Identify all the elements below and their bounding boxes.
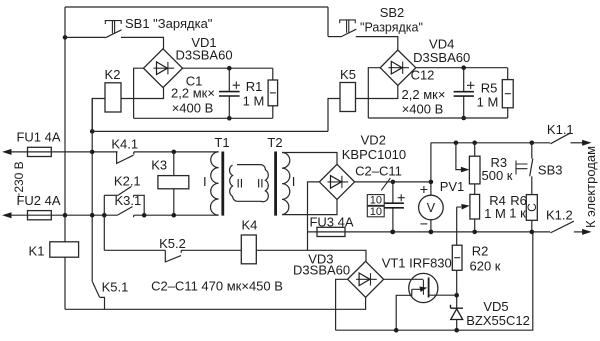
fuse FU3	[317, 227, 345, 236]
wire K2 left lead down to bus	[92, 99, 105, 132]
contact K2.1 tick and blade	[118, 186, 133, 197]
node C2-C11 top dot	[391, 180, 396, 185]
multiplier box 10 lower	[367, 206, 384, 217]
multiplier box 10 upper	[367, 195, 384, 206]
capacitor bank C2-C11 symbol	[392, 182, 394, 232]
diode symbol inside VD4	[388, 62, 409, 74]
pushbutton SB2 contact blade	[341, 29, 357, 37]
wire K4 right lead to VD3 top vertex	[256, 250, 366, 261]
svg-text:I: I	[203, 174, 207, 189]
wire K3 riser bottom	[173, 189, 175, 215]
transformer T1 primary winding	[211, 152, 219, 215]
node K3 top dot	[172, 150, 177, 155]
wire VD3 right vertex to VT1 gate	[384, 278, 424, 280]
contact K1.1 blade	[550, 133, 570, 144]
wire VD1 left vertex to left drop	[134, 68, 144, 118]
svg-text:K2.1: K2.1	[114, 174, 141, 189]
svg-text:K1.2: K1.2	[546, 208, 573, 223]
resistor R5	[507, 68, 509, 118]
bridge rectifier VD1 diamond	[144, 49, 183, 88]
contact K4.1 tick and blade	[117, 152, 134, 164]
wire SB2 right lead to VD4 top	[356, 37, 398, 50]
svg-text:FU2 4A: FU2 4A	[16, 193, 60, 208]
bridge rectifier VD3 diamond	[348, 261, 384, 297]
svg-text:KBPC1010: KBPC1010	[342, 147, 406, 162]
svg-text:1 М: 1 М	[477, 95, 499, 110]
wire K5.1 lower lead	[104, 297, 106, 309]
wire T2 primary bottom crossing to VD2 bottom vertex	[282, 200, 337, 215]
node C12 bottom dot	[461, 116, 466, 121]
svg-text:T1: T1	[214, 135, 229, 150]
svg-text:1 М: 1 М	[484, 206, 506, 221]
wire K2.1 branch right lead	[134, 195, 145, 215]
pushbutton SB3 upper lead	[531, 143, 533, 159]
svg-text:×400 В: ×400 В	[402, 102, 444, 117]
node K3 bottom dot	[172, 213, 177, 218]
contact K5.1 tick and blade	[92, 282, 105, 298]
contact K3.1 tick and blade	[118, 207, 134, 218]
node PV1 bottom dot	[429, 230, 434, 235]
wire relay bus K2-K5	[92, 130, 328, 132]
arrow to electrodes bottom	[582, 229, 591, 235]
wire VD3 left vertex drop to bottom rail	[336, 279, 348, 330]
node VD5 bottom dot	[454, 328, 459, 333]
wire bottom rail	[336, 232, 533, 330]
node relay bus left dot	[90, 129, 95, 134]
wire mains line 2 through FU2 to K3.1 break	[11, 214, 118, 216]
potentiometer R4	[470, 194, 480, 219]
wire SB1 right lead to VD1 top	[121, 37, 164, 48]
svg-text:V: V	[427, 201, 436, 215]
wire K5 left lead down to bus riser	[328, 99, 340, 132]
svg-text:K1: K1	[29, 244, 45, 259]
node K3.1 right dot	[142, 213, 147, 218]
label C2-C11 group tick	[381, 178, 390, 190]
wire K5.2 left lead	[104, 249, 165, 251]
svg-text:SB3: SB3	[538, 163, 563, 178]
wire K3 riser top	[173, 152, 175, 176]
plus mark of C12	[467, 82, 474, 89]
transistor VT1 gate and channel bars	[422, 280, 424, 295]
wire R4 wiper down to R2 crossing bus	[456, 207, 458, 245]
wire negative bus through FU3	[308, 231, 551, 233]
wire K2 right lead crossing to VD1 bottom vertex	[121, 88, 164, 99]
potentiometer R3	[474, 143, 476, 156]
svg-text:×400 В: ×400 В	[172, 101, 214, 116]
diode symbol inside VD2	[328, 176, 349, 188]
wire SB2 drop from top bus	[327, 7, 329, 37]
wire VT1 source to R2/VD5 node	[429, 294, 457, 296]
voltmeter PV1 circle	[419, 195, 444, 220]
wire mains line 1 through FU1	[11, 151, 118, 153]
wire VD2 left vertex drop	[308, 182, 320, 250]
wire left outer vertical (mains to K1)	[64, 7, 66, 242]
svg-text:D3SBA60: D3SBA60	[293, 263, 350, 278]
svg-text:SB2: SB2	[380, 5, 405, 20]
svg-text:VT1 IRF830: VT1 IRF830	[382, 256, 452, 271]
diode symbol inside VD1	[154, 62, 175, 74]
pushbutton SB2 actuator	[340, 20, 356, 33]
wire K1.2 output lead	[574, 231, 583, 233]
resistor R1	[272, 68, 274, 118]
pushbutton SB3 blade	[530, 159, 533, 177]
node SB1 tap junction dot	[63, 35, 68, 40]
arrow mains line 2	[2, 212, 11, 218]
wire K4.1 to T1 primary top	[134, 151, 219, 153]
plus mark of C1	[233, 82, 240, 89]
node K2.1 branch left dot	[102, 213, 107, 218]
svg-text:К электродам: К электродам	[583, 146, 598, 228]
node PV1 top dot	[429, 180, 434, 185]
R4 wiper arm with arrow	[457, 206, 462, 208]
svg-text:C2–C11: C2–C11	[355, 164, 402, 179]
plus mark of C2-C11	[398, 194, 405, 201]
svg-text:C12: C12	[411, 68, 435, 83]
wire T2 primary top to VD2 top vertex	[282, 153, 337, 165]
svg-text:K5.1: K5.1	[102, 280, 129, 295]
svg-text:10: 10	[370, 195, 382, 207]
svg-text:1 к: 1 к	[509, 206, 526, 221]
wire K2.1 branch left lead	[104, 194, 118, 196]
node VD5 top dot	[454, 293, 459, 298]
svg-text:D3SBA60: D3SBA60	[413, 50, 470, 65]
contact K1.2 blade	[550, 221, 574, 233]
transformer T2 core	[274, 152, 277, 216]
wire positive top bus	[431, 142, 550, 144]
node mains bus x92 dot	[90, 213, 95, 218]
node R4 bottom dot	[472, 230, 477, 235]
resistor R6	[526, 195, 537, 221]
pushbutton SB1 actuator	[105, 21, 121, 34]
minus mark of PV1	[420, 223, 427, 225]
wire VD4 left vertex to left drop	[368, 68, 380, 118]
wire C1/R1 bottom rail	[134, 117, 273, 119]
svg-text:T2: T2	[267, 135, 282, 150]
wire K2.1 branch left vertical	[103, 195, 105, 215]
svg-text:FU3 4A: FU3 4A	[309, 215, 353, 230]
wire top bus from left vertical to SB2 corner	[65, 6, 328, 8]
svg-text:FU1 4A: FU1 4A	[16, 130, 60, 145]
svg-text:R1: R1	[246, 79, 263, 94]
wire K1.1 output lead	[571, 142, 584, 144]
transistor VT1 circle	[409, 273, 438, 302]
svg-text:K1.1: K1.1	[547, 122, 574, 137]
node FU3 bus dot	[390, 230, 395, 235]
fuse FU1	[28, 147, 52, 156]
wire VT1 substrate to bottom rail	[396, 289, 412, 330]
wire PV1 riser and top bus start	[430, 143, 432, 232]
wire DC plus rail VD2 to PV1	[355, 181, 431, 183]
svg-text:10: 10	[370, 206, 382, 218]
wire C1/R1 top rail	[183, 67, 273, 69]
node R3 top dot	[472, 141, 477, 146]
capacitor C12 polarized	[463, 68, 465, 118]
svg-text:R2: R2	[472, 244, 489, 259]
bridge rectifier VD2 diamond	[319, 164, 354, 199]
svg-text:K2: K2	[105, 67, 121, 82]
capacitor C1 polarized	[228, 68, 230, 118]
svg-text:2,2 мк×: 2,2 мк×	[171, 86, 215, 101]
zener diode VD5	[456, 295, 458, 330]
svg-text:SB1 "Зарядка": SB1 "Зарядка"	[125, 16, 213, 31]
wire bus K3.1 to T1 primary bottom	[134, 214, 219, 216]
relay coil K3	[158, 176, 189, 189]
transformer T1 core	[221, 152, 224, 216]
node FU1 bus x92 dot	[90, 150, 95, 155]
wire SB2 left lead	[328, 36, 341, 38]
svg-text:K3: K3	[151, 158, 167, 173]
node R6 bottom dot	[530, 230, 535, 235]
svg-text:VD5: VD5	[483, 299, 508, 314]
svg-text:BZX55C12: BZX55C12	[466, 313, 530, 328]
svg-text:VD2: VD2	[361, 133, 386, 148]
wire K5.2 right lead to K4	[181, 249, 241, 251]
relay coil K1	[50, 242, 79, 257]
wire R3 to R4	[474, 184, 476, 195]
svg-text:II: II	[236, 177, 243, 191]
svg-text:I: I	[292, 174, 296, 189]
relay coil K5	[340, 83, 356, 112]
contact K5.2 tick and blade	[165, 250, 181, 262]
svg-text:K4.1: K4.1	[111, 136, 138, 151]
wire K5 right lead crossing to VD4 bottom vertex	[356, 86, 398, 99]
resistor R2	[452, 245, 462, 270]
diode symbol inside VD3	[356, 273, 377, 285]
wire K5.2 branch drop	[103, 215, 105, 250]
arrow to electrodes top	[582, 140, 591, 146]
node substrate rail dot	[394, 328, 399, 333]
wire lower return K1 to VD3 bottom	[65, 297, 366, 309]
svg-text:500 к: 500 к	[482, 168, 513, 183]
node VT1 drain bus dot	[429, 230, 434, 235]
svg-text:K5.2: K5.2	[159, 236, 186, 251]
arrow mains line 1	[2, 149, 11, 155]
transformer T2 primary winding	[282, 153, 290, 215]
wire SB1 left lead	[65, 36, 105, 38]
bridge rectifier VD4 diamond	[380, 50, 416, 86]
svg-text:C: C	[525, 203, 539, 212]
pushbutton SB1 contact blade	[105, 30, 121, 38]
node C1 top dot	[227, 66, 232, 71]
wire C12/R5 top rail	[416, 67, 508, 69]
node SB3 top dot	[530, 141, 535, 146]
secondary loop T1-II / T2-II windings	[230, 165, 269, 202]
relay coil K2	[105, 83, 121, 112]
svg-text:PV1: PV1	[440, 179, 465, 194]
node C12 top dot	[461, 65, 466, 70]
pushbutton SB3 lower lead	[531, 176, 533, 194]
svg-text:D3SBA60: D3SBA60	[175, 48, 232, 63]
svg-text:"Разрядка": "Разрядка"	[360, 21, 423, 35]
node R3 wiper dot	[454, 141, 459, 146]
svg-text:1 М: 1 М	[243, 94, 265, 109]
wire K1 bottom to lower return	[64, 257, 66, 309]
plus mark of PV1	[420, 186, 427, 193]
node C2-C11 bottom dot	[391, 230, 396, 235]
svg-text:II: II	[257, 177, 264, 191]
svg-text:2,2 мк×: 2,2 мк×	[402, 87, 446, 102]
fuse FU2	[28, 211, 52, 220]
relay coil K4	[241, 235, 256, 264]
svg-text:620 к: 620 к	[470, 259, 501, 274]
wire middle vertical K2 feed	[91, 99, 93, 282]
node C1 bottom dot	[227, 116, 232, 121]
svg-text:K4: K4	[241, 218, 257, 233]
R3 wiper arm with arrow	[456, 143, 462, 170]
svg-text:K5: K5	[340, 67, 356, 82]
svg-text:R5: R5	[481, 81, 498, 96]
pushbutton SB3 actuator	[516, 161, 528, 175]
svg-text:C2–C11 470 мк×450 В: C2–C11 470 мк×450 В	[151, 279, 283, 294]
node mains bus outer vertical dot	[63, 213, 68, 218]
wire C12/R5 bottom rail	[368, 117, 507, 119]
transistor VT1 substrate arrow	[412, 288, 421, 290]
